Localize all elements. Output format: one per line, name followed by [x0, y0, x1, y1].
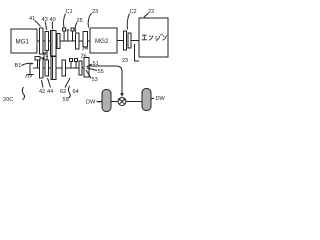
svg-text:22: 22	[148, 9, 154, 15]
wire engine mount line	[135, 44, 140, 61]
svg-text:DW: DW	[156, 96, 166, 102]
wire axle left	[97, 101, 102, 103]
wire shaft MG2 to damper	[117, 40, 123, 42]
gear 42	[40, 58, 44, 78]
gear 46	[76, 33, 80, 49]
label engine text katakana drawn	[142, 34, 167, 41]
svg-text:41: 41	[29, 16, 35, 22]
svg-text:23: 23	[92, 9, 98, 15]
wire axle right	[126, 101, 142, 103]
leader C1	[64, 14, 66, 28]
wire main shaft through cluster	[43, 40, 90, 42]
svg-text:53: 53	[92, 77, 98, 83]
gear 50 counter drive	[84, 58, 89, 78]
leader C2	[127, 14, 129, 30]
leader 41	[35, 21, 41, 27]
leader B1 arrow	[22, 63, 34, 65]
box engine 22	[139, 18, 168, 57]
wire axle stub right	[151, 98, 154, 99]
svg-text:64: 64	[73, 89, 79, 95]
wire counter shaft	[33, 67, 90, 69]
leader 40	[51, 22, 53, 30]
svg-text:MG1: MG1	[16, 39, 30, 46]
gear 48	[51, 57, 56, 80]
box MG1	[11, 29, 37, 53]
gear 43	[45, 32, 49, 51]
svg-text:25: 25	[77, 18, 83, 24]
damper 23	[124, 31, 127, 50]
svg-text:20C: 20C	[3, 97, 13, 103]
leader 53	[86, 70, 91, 78]
clutch 62 64	[70, 59, 78, 69]
svg-text:44: 44	[47, 89, 53, 95]
leader 47	[45, 52, 46, 55]
leader 62	[65, 78, 70, 88]
svg-text:42: 42	[39, 89, 45, 95]
leader 22	[144, 14, 149, 18]
connector carrier lines	[43, 52, 45, 60]
svg-text:24: 24	[82, 46, 88, 52]
svg-text:62: 62	[60, 89, 66, 95]
gear 41	[40, 28, 44, 54]
svg-text:DW: DW	[86, 100, 96, 106]
gear 66	[79, 61, 82, 75]
gear 60	[62, 60, 66, 76]
svg-text:C1: C1	[66, 9, 73, 15]
wheel DW right	[142, 89, 151, 111]
clutch C1b	[71, 28, 74, 41]
svg-text:MG2: MG2	[95, 38, 109, 45]
gear 45	[57, 34, 60, 49]
leader 43	[45, 22, 47, 31]
leader 26	[75, 23, 77, 33]
svg-text:23: 23	[122, 58, 128, 64]
section squiggle	[22, 87, 24, 100]
ground B1	[29, 64, 31, 75]
svg-text:59: 59	[63, 97, 69, 103]
gear 40	[51, 31, 57, 57]
leader 55	[87, 68, 97, 71]
wire shaft damper to engine	[131, 40, 139, 42]
differential 52	[118, 98, 127, 106]
wire main shaft MG1 to gear cluster	[37, 40, 40, 42]
svg-text:43: 43	[42, 17, 48, 23]
gear 44	[45, 60, 49, 76]
brace 62 64	[69, 86, 71, 98]
gear 24 drive gear on main shaft	[83, 32, 88, 48]
clutch C1	[63, 28, 70, 41]
brake B1 plate	[35, 57, 40, 61]
svg-text:55: 55	[98, 69, 104, 75]
leader 42	[42, 80, 44, 88]
leader DW left	[97, 101, 102, 102]
svg-text:B1: B1	[15, 63, 22, 69]
leader 23	[88, 13, 91, 28]
wire drive line to differential	[89, 66, 122, 94]
wheel DW left	[102, 90, 111, 112]
svg-text:C2: C2	[130, 9, 137, 15]
leader 51	[87, 64, 93, 67]
arrowhead into diff	[120, 93, 124, 97]
leader 44	[48, 78, 51, 88]
box MG2	[90, 28, 117, 53]
